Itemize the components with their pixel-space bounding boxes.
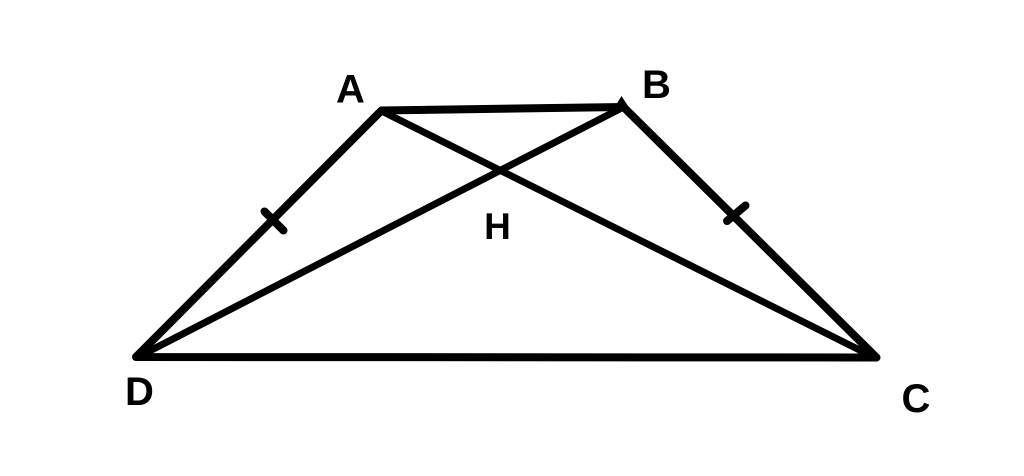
wire diagonal AC <box>382 111 877 359</box>
junction blob at B <box>615 96 630 108</box>
svg-text:C: C <box>902 377 931 421</box>
svg-text:H: H <box>484 206 511 247</box>
svg-text:B: B <box>642 63 671 107</box>
wire trapezoid ABCD outline <box>136 107 877 358</box>
svg-text:A: A <box>336 68 365 112</box>
tick mark on BC <box>727 206 746 222</box>
wire diagonal DB <box>136 107 624 358</box>
tick mark on AD <box>265 212 284 231</box>
svg-text:D: D <box>125 370 154 414</box>
